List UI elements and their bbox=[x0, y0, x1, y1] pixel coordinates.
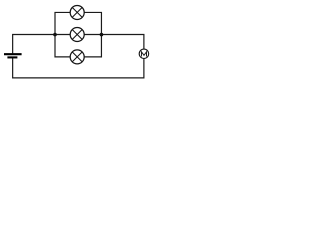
battery B1 (single cell: long positive plate above, short negative plate below) bbox=[4, 54, 22, 57]
node B (right junction dot on main bus) bbox=[100, 33, 104, 37]
wire: battery positive lead up and right along main bus to lamp L2 left terminal bbox=[13, 35, 71, 54]
lamp L3 (bottom branch, circle with X) bbox=[70, 50, 84, 64]
node A (left junction dot on main bus) bbox=[53, 33, 57, 37]
wire: bottom branch, lamp L3 right terminal across and up to node B bbox=[84, 35, 101, 57]
wire: main bus from lamp L2 right terminal to top-right corner and down to motor top terminal bbox=[84, 35, 144, 50]
motor M1 (circle with letter M) bbox=[139, 49, 149, 59]
wire: top branch, lamp L1 right terminal across and down to node B bbox=[84, 12, 101, 34]
lamp L2 (middle branch, circle with X) bbox=[70, 28, 84, 42]
lamp L1 (top branch, circle with X) bbox=[70, 5, 84, 19]
wire: bottom branch, node A down and across to lamp L3 left terminal bbox=[55, 35, 70, 57]
wire: top branch, node A up and across to lamp L1 left terminal bbox=[55, 12, 70, 34]
wire: motor bottom terminal down, return wire along bottom, up to battery negative plate bbox=[13, 58, 144, 78]
